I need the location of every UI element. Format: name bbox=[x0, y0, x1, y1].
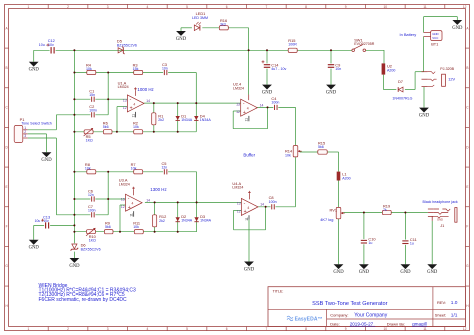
svg-text:5: 5 bbox=[186, 5, 188, 9]
svg-text:12: 12 bbox=[237, 209, 241, 213]
svg-text:12: 12 bbox=[236, 110, 240, 114]
svg-text:GND: GND bbox=[29, 68, 40, 73]
svg-text:8: 8 bbox=[305, 5, 307, 9]
svg-text:A200: A200 bbox=[342, 176, 350, 180]
svg-text:GND: GND bbox=[262, 91, 273, 96]
svg-text:4K7 log: 4K7 log bbox=[320, 217, 333, 222]
svg-text:LM324: LM324 bbox=[233, 86, 244, 90]
svg-text:J1: J1 bbox=[440, 223, 444, 228]
svg-text:10: 10 bbox=[384, 327, 388, 331]
svg-text:BT1: BT1 bbox=[431, 42, 438, 47]
svg-text:Company:: Company: bbox=[330, 312, 348, 317]
svg-text:gmagill: gmagill bbox=[412, 321, 427, 326]
svg-text:In Battery: In Battery bbox=[400, 32, 417, 37]
svg-text:2k2: 2k2 bbox=[158, 118, 164, 122]
svg-text:E: E bbox=[6, 185, 8, 189]
svg-text:4: 4 bbox=[133, 102, 135, 106]
svg-text:5k6: 5k6 bbox=[318, 145, 324, 149]
svg-text:REV:: REV: bbox=[437, 300, 446, 305]
svg-text:10k: 10k bbox=[133, 125, 139, 129]
svg-text:10k: 10k bbox=[133, 225, 139, 229]
svg-text:+: + bbox=[128, 205, 131, 211]
svg-text:A200: A200 bbox=[387, 68, 395, 72]
svg-text:2k2: 2k2 bbox=[159, 219, 165, 223]
svg-text:1N34A: 1N34A bbox=[200, 219, 212, 223]
svg-text:12: 12 bbox=[121, 205, 125, 209]
svg-text:1KΩ: 1KΩ bbox=[89, 239, 96, 243]
svg-text:1KΩ: 1KΩ bbox=[86, 139, 93, 143]
svg-text:Drawn By:: Drawn By: bbox=[387, 322, 405, 327]
svg-text:GND: GND bbox=[333, 270, 344, 275]
svg-text:6: 6 bbox=[226, 327, 228, 331]
svg-text:5k6: 5k6 bbox=[103, 125, 109, 129]
svg-text:EasyEDA™: EasyEDA™ bbox=[295, 316, 323, 322]
svg-text:Date:: Date: bbox=[330, 322, 340, 327]
svg-text:GND: GND bbox=[427, 270, 438, 275]
svg-text:1/1: 1/1 bbox=[451, 313, 458, 319]
svg-text:4: 4 bbox=[146, 327, 148, 331]
svg-text:Sheet:: Sheet: bbox=[435, 312, 447, 317]
svg-text:14: 14 bbox=[146, 99, 150, 103]
svg-text:13: 13 bbox=[237, 202, 241, 206]
svg-text:TITLE:: TITLE: bbox=[273, 289, 284, 293]
svg-text:4: 4 bbox=[247, 206, 249, 210]
svg-text:11: 11 bbox=[245, 217, 249, 221]
svg-text:EVQ02705R: EVQ02705R bbox=[354, 42, 375, 46]
svg-text:6: 6 bbox=[226, 5, 228, 9]
svg-text:1u: 1u bbox=[368, 241, 372, 245]
svg-text:14: 14 bbox=[260, 103, 264, 107]
svg-text:11: 11 bbox=[130, 213, 134, 217]
svg-text:GND: GND bbox=[400, 270, 411, 275]
svg-text:SSB Two-Tone Test Generator: SSB Two-Tone Test Generator bbox=[312, 301, 387, 307]
svg-text:3: 3 bbox=[107, 5, 109, 9]
svg-text:GND: GND bbox=[41, 158, 52, 163]
svg-text:12n: 12n bbox=[162, 166, 168, 170]
svg-text:4u7 - 10v: 4u7 - 10v bbox=[271, 67, 286, 71]
svg-text:7: 7 bbox=[265, 5, 267, 9]
svg-text:1: 1 bbox=[27, 327, 29, 331]
svg-text:1300 Hz: 1300 Hz bbox=[150, 187, 166, 192]
svg-text:+: + bbox=[243, 110, 246, 116]
svg-text:+: + bbox=[130, 106, 133, 112]
svg-text:9: 9 bbox=[345, 5, 347, 9]
svg-text:D7: D7 bbox=[398, 79, 403, 84]
svg-text:10n: 10n bbox=[162, 66, 168, 70]
svg-text:9: 9 bbox=[345, 327, 347, 331]
svg-text:1N34A: 1N34A bbox=[200, 118, 212, 122]
svg-text:10k: 10k bbox=[285, 153, 291, 157]
svg-text:GND: GND bbox=[419, 114, 430, 119]
svg-text:15k: 15k bbox=[133, 67, 139, 71]
svg-text:11: 11 bbox=[423, 327, 427, 331]
svg-text:7: 7 bbox=[265, 327, 267, 331]
svg-text:14: 14 bbox=[146, 198, 150, 202]
svg-text:12: 12 bbox=[123, 106, 127, 110]
svg-text:100n: 100n bbox=[269, 200, 277, 204]
svg-text:3k3: 3k3 bbox=[220, 22, 226, 26]
svg-text:E: E bbox=[466, 185, 468, 189]
svg-text:Black headphone jack: Black headphone jack bbox=[423, 200, 458, 204]
svg-text:LED 3MM: LED 3MM bbox=[192, 16, 208, 20]
svg-text:GND: GND bbox=[69, 264, 80, 269]
svg-text:GND: GND bbox=[244, 267, 255, 272]
svg-text:100n: 100n bbox=[88, 209, 96, 213]
svg-text:4: 4 bbox=[146, 5, 148, 9]
svg-text:12V: 12V bbox=[448, 77, 455, 82]
svg-text:GND: GND bbox=[359, 270, 370, 275]
svg-text:100R: 100R bbox=[288, 43, 297, 47]
svg-text:5k6: 5k6 bbox=[105, 225, 111, 229]
svg-text:LM324: LM324 bbox=[232, 186, 243, 190]
svg-text:LM324: LM324 bbox=[119, 183, 130, 187]
svg-text:B: B bbox=[466, 66, 468, 70]
svg-text:+: + bbox=[244, 209, 247, 215]
svg-text:12n: 12n bbox=[88, 193, 94, 197]
svg-text:1N34A: 1N34A bbox=[181, 118, 193, 122]
svg-text:GND: GND bbox=[176, 37, 187, 42]
svg-text:BZX55C2V6: BZX55C2V6 bbox=[81, 247, 101, 251]
svg-text:3: 3 bbox=[24, 134, 26, 138]
svg-text:Tone Select Switch: Tone Select Switch bbox=[21, 122, 51, 126]
svg-text:4: 4 bbox=[247, 107, 249, 111]
svg-text:13: 13 bbox=[123, 98, 127, 102]
svg-text:GND: GND bbox=[452, 26, 463, 31]
svg-text:GND: GND bbox=[29, 246, 40, 251]
svg-text:13: 13 bbox=[236, 103, 240, 107]
svg-text:10k: 10k bbox=[131, 167, 137, 171]
svg-text:GND: GND bbox=[437, 218, 443, 222]
svg-text:13: 13 bbox=[121, 198, 125, 202]
svg-text:1: 1 bbox=[27, 5, 29, 9]
svg-text:2019-05-27: 2019-05-27 bbox=[350, 321, 374, 326]
svg-text:10k: 10k bbox=[86, 67, 92, 71]
svg-text:14: 14 bbox=[260, 203, 264, 207]
svg-text:5: 5 bbox=[186, 327, 188, 331]
svg-text:3: 3 bbox=[107, 327, 109, 331]
svg-text:VCC: VCC bbox=[432, 36, 438, 40]
svg-text:12: 12 bbox=[463, 327, 467, 331]
svg-text:B: B bbox=[6, 66, 8, 70]
svg-text:F: F bbox=[466, 225, 468, 229]
svg-text:1N4007RLG: 1N4007RLG bbox=[392, 97, 412, 101]
svg-text:10u - 10v: 10u - 10v bbox=[35, 219, 49, 223]
svg-text:11: 11 bbox=[245, 118, 249, 122]
svg-text:F: F bbox=[6, 225, 8, 229]
svg-text:2: 2 bbox=[67, 327, 69, 331]
svg-text:11: 11 bbox=[423, 5, 427, 9]
svg-text:F6CER schematic, re-drawn by D: F6CER schematic, re-drawn by DC4DC bbox=[39, 297, 127, 303]
svg-text:LM324: LM324 bbox=[118, 85, 129, 89]
svg-text:100n: 100n bbox=[271, 100, 279, 104]
svg-text:1N34A: 1N34A bbox=[181, 219, 193, 223]
svg-text:10u - 10v: 10u - 10v bbox=[39, 43, 54, 47]
svg-text:10: 10 bbox=[384, 5, 388, 9]
svg-text:12: 12 bbox=[463, 5, 467, 9]
svg-text:100n: 100n bbox=[89, 109, 97, 113]
svg-text:7k: 7k bbox=[383, 208, 387, 212]
svg-text:GND: GND bbox=[326, 91, 337, 96]
svg-text:10k: 10k bbox=[85, 167, 91, 171]
svg-text:1000 Hz: 1000 Hz bbox=[137, 87, 153, 92]
svg-text:11: 11 bbox=[131, 114, 135, 118]
svg-text:4: 4 bbox=[132, 202, 134, 206]
svg-text:15n: 15n bbox=[89, 93, 95, 97]
svg-text:10n: 10n bbox=[335, 67, 341, 71]
svg-text:Your Company: Your Company bbox=[354, 313, 387, 319]
svg-text:Buffer: Buffer bbox=[243, 153, 255, 158]
svg-text:1.0: 1.0 bbox=[451, 300, 458, 306]
svg-text:1u: 1u bbox=[410, 242, 414, 246]
svg-text:PJ-320B: PJ-320B bbox=[440, 67, 454, 71]
svg-text:2: 2 bbox=[67, 5, 69, 9]
svg-text:RV1: RV1 bbox=[330, 207, 338, 212]
svg-text:8: 8 bbox=[305, 327, 307, 331]
svg-text:BZX55C2V6: BZX55C2V6 bbox=[117, 43, 137, 47]
